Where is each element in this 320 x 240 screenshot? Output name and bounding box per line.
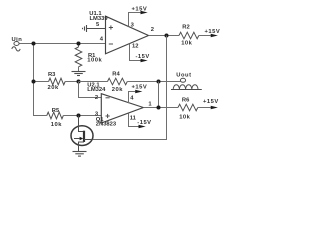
svg-text:4: 4 xyxy=(130,95,134,101)
svg-text:Uout: Uout xyxy=(176,73,191,79)
svg-text:-15V: -15V xyxy=(137,120,151,126)
svg-text:11: 11 xyxy=(130,115,137,121)
resistor R1 xyxy=(75,44,102,72)
svg-text:R3: R3 xyxy=(48,72,56,78)
svg-text:+15V: +15V xyxy=(203,99,219,105)
svg-text:LM339: LM339 xyxy=(90,16,109,22)
svg-text:+15V: +15V xyxy=(132,85,148,91)
svg-text:LM324: LM324 xyxy=(87,87,106,93)
wire U2 pin 2 drop xyxy=(79,82,102,98)
svg-text:100k: 100k xyxy=(87,58,102,64)
svg-text:2N3823: 2N3823 xyxy=(96,121,117,127)
svg-text:10k: 10k xyxy=(181,41,192,47)
waveform icon under Uout xyxy=(171,85,202,90)
node junction Uin/left vertical xyxy=(32,42,36,46)
svg-text:10k: 10k xyxy=(179,115,190,121)
svg-text:2: 2 xyxy=(151,27,154,33)
svg-text:3: 3 xyxy=(131,22,135,28)
wire R4 to Uout xyxy=(127,81,180,83)
node junction U2 output xyxy=(157,106,161,110)
power -15V at U2 pin 11 xyxy=(129,113,152,128)
node junction U1 output xyxy=(165,34,169,38)
power +15V after R2 xyxy=(199,29,220,37)
wire U1 output row xyxy=(149,35,180,37)
svg-text:4: 4 xyxy=(100,37,104,43)
wire Uin row to U1 pin 4 xyxy=(19,43,105,45)
svg-text:R4: R4 xyxy=(112,72,120,78)
power +15V at U1 pin 3 xyxy=(129,6,148,26)
resistor R4 xyxy=(108,72,128,93)
wire R4 row xyxy=(79,81,108,83)
svg-text:20k: 20k xyxy=(112,87,123,93)
svg-text:20k: 20k xyxy=(48,85,59,91)
node junction R3 left xyxy=(32,80,36,84)
svg-text:R6: R6 xyxy=(182,97,190,103)
wire feedback vertical xyxy=(158,82,160,108)
op-amp U2.1 xyxy=(101,94,143,123)
terminal Uout xyxy=(180,78,185,82)
op-amp U1.1 xyxy=(106,16,149,54)
svg-text:+15V: +15V xyxy=(205,29,221,35)
svg-text:R2: R2 xyxy=(182,24,189,30)
wire left vertical from Uin junction down to R5 row xyxy=(34,44,47,116)
resistor R6 xyxy=(178,97,198,120)
resistor R5 xyxy=(47,108,64,128)
power +15V after R6 xyxy=(198,99,219,109)
resistor R3 xyxy=(48,72,66,91)
svg-text:R5: R5 xyxy=(52,108,60,114)
svg-text:10k: 10k xyxy=(51,122,62,128)
node junction feedback xyxy=(157,80,161,84)
wire R3 to pin2 junction xyxy=(65,81,78,83)
ground at U1 pin 5 (rotated) xyxy=(83,25,106,32)
svg-text:+15V: +15V xyxy=(132,6,148,12)
wire U1 output to Q1 gate (right vertical and bottom run) xyxy=(93,36,167,140)
svg-text:1: 1 xyxy=(148,101,152,107)
wire U2 output row xyxy=(143,107,178,109)
svg-text:Uin: Uin xyxy=(12,37,23,43)
wire R5 to U2 pin 3 xyxy=(63,115,101,117)
wire R3 row left xyxy=(34,81,49,83)
ground under R1 xyxy=(72,72,86,76)
svg-text:2: 2 xyxy=(95,95,98,101)
node junction R1 top xyxy=(77,42,81,46)
ground under Q1 xyxy=(73,152,87,157)
power +15V at U2 pin 4 xyxy=(129,85,148,104)
terminal Uin xyxy=(12,42,20,52)
power -15V at U1 pin 12 xyxy=(130,44,150,63)
resistor R2 xyxy=(179,24,199,46)
transistor Q1 (JFET 2N3823) xyxy=(71,116,93,152)
node junction R3/R4/pin2 xyxy=(77,80,81,84)
svg-text:5: 5 xyxy=(96,22,100,28)
svg-text:12: 12 xyxy=(132,44,138,50)
svg-text:-15V: -15V xyxy=(136,54,150,60)
node junction R5/drain xyxy=(77,114,81,118)
